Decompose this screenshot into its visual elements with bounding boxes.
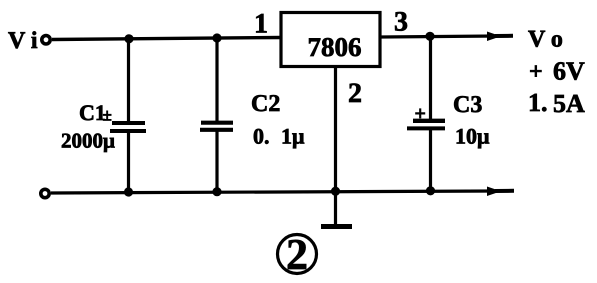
ground [321, 224, 352, 229]
svg-text:2: 2 [286, 230, 308, 279]
junction bottom C2 [212, 187, 221, 196]
svg-text:C3: C3 [453, 92, 482, 118]
svg-text:±: ± [103, 106, 112, 125]
wire C1 top lead [127, 39, 130, 123]
capacitor C1 [110, 39, 146, 192]
svg-text:0.: 0. [253, 124, 270, 149]
svg-text:+: + [529, 59, 543, 85]
junction bottom ground [331, 187, 340, 196]
node Vi input terminal [42, 36, 50, 44]
wire pin 2 to ground [334, 66, 337, 225]
wire bottom rail [51, 191, 497, 193]
junction top C1 [124, 34, 133, 43]
svg-text:C2: C2 [251, 91, 280, 117]
svg-text:1μ: 1μ [281, 124, 305, 149]
IC 7806 voltage regulator [281, 13, 380, 67]
svg-text:1: 1 [254, 9, 268, 40]
svg-text:5A: 5A [553, 89, 585, 118]
junction bottom C3 [426, 186, 435, 195]
capacitor C3 [407, 36, 445, 191]
wire C1 bottom lead [127, 131, 130, 192]
svg-text:10μ: 10μ [455, 124, 490, 149]
junction top C3 [425, 32, 434, 41]
C2 bottom plate [200, 128, 233, 132]
svg-text:V i: V i [8, 28, 38, 54]
C2 top plate [201, 121, 233, 125]
C1 top plate [112, 121, 145, 125]
arrowhead bottom [487, 187, 501, 197]
svg-text:6V: 6V [553, 57, 585, 86]
wire C3 bottom lead [429, 129, 432, 191]
C3 top plate [413, 119, 445, 123]
arrowhead output [487, 32, 501, 42]
junction bottom C1 [124, 187, 133, 196]
svg-text:+: + [415, 103, 426, 125]
C1 bottom plate [110, 129, 146, 133]
svg-text:2000μ: 2000μ [61, 129, 115, 153]
svg-text:3: 3 [394, 7, 408, 38]
svg-text:7806: 7806 [308, 32, 362, 62]
capacitor C2 [200, 38, 233, 192]
figure number circled 2 [278, 235, 317, 274]
wire C2 top lead [215, 38, 218, 123]
wire C2 bottom lead [215, 130, 218, 192]
svg-text:V o: V o [528, 27, 563, 53]
node common output terminal [41, 189, 49, 197]
C3 bottom plate [407, 126, 445, 130]
junction top C2 [212, 33, 221, 42]
wire top input rail [52, 38, 281, 40]
wire top output rail [380, 36, 497, 37]
wire C3 top lead [429, 36, 432, 120]
svg-text:1.: 1. [528, 88, 548, 117]
svg-text:2: 2 [348, 78, 362, 109]
